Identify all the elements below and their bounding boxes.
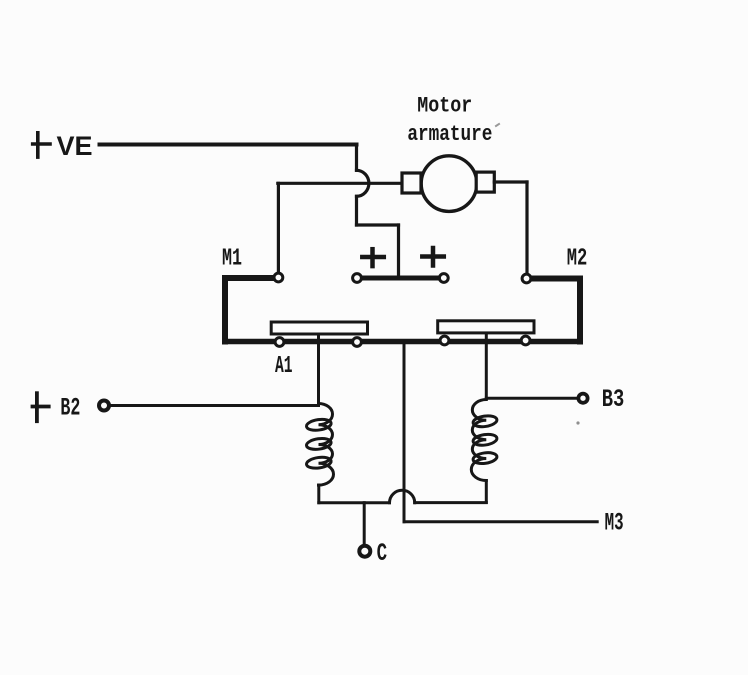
wire right bar tap down	[485, 333, 488, 398]
svg-text:B3: B3	[602, 385, 625, 414]
svg-text:Motor: Motor	[417, 93, 472, 118]
power terminal +VE cross symbol	[33, 133, 50, 157]
thick contact bus wire	[226, 339, 580, 345]
wire M3 vertical (center)	[403, 342, 406, 522]
wire B3 lead	[486, 397, 577, 400]
wire +VE vertical drop (upper part)	[355, 145, 358, 171]
contact bar left (bridge over A1 contacts)	[271, 322, 367, 334]
crossover hop of +VE wire over armature wire	[357, 170, 369, 196]
terminal bridge right (+)	[439, 274, 448, 283]
contact stud left-bar left	[275, 338, 284, 347]
wire bottom right segment	[415, 501, 487, 504]
motor brush right	[476, 172, 494, 192]
svg-text:B2: B2	[60, 394, 80, 423]
thick armature bridge bar between + terminals	[357, 276, 444, 281]
wire C stub	[363, 503, 366, 544]
wire +VE horizontal feed	[100, 143, 357, 147]
plus mark right of armature bridge	[422, 248, 444, 266]
wire M2 vertical drop	[525, 182, 528, 273]
wire right coil to bottom	[485, 481, 488, 503]
terminal C	[359, 546, 370, 557]
terminal M1	[274, 273, 283, 282]
contact stud right-bar right	[521, 336, 530, 345]
motor armature body	[421, 156, 477, 212]
coil left (winding)	[306, 404, 334, 486]
svg-text:M3: M3	[605, 509, 624, 538]
svg-text:armature: armature	[407, 122, 492, 147]
svg-text:C: C	[377, 539, 388, 568]
stray mark after armature	[496, 124, 499, 126]
wire M3 horizontal lead	[404, 520, 597, 523]
svg-text:M2: M2	[567, 246, 588, 273]
wire B2 to left coil	[111, 404, 319, 407]
plus mark left of armature bridge	[362, 249, 384, 266]
svg-text:A1: A1	[275, 353, 293, 380]
wire armature left lead	[278, 182, 402, 185]
svg-text:VE: VE	[57, 131, 93, 161]
wire +VE vertical drop (lower part)	[355, 196, 358, 225]
terminal B3	[578, 394, 587, 403]
stray speck below B3	[576, 421, 579, 424]
svg-text:M1: M1	[222, 246, 242, 273]
wire left coil to bottom	[317, 485, 320, 503]
thick wire hook M1 to contact bus	[225, 278, 273, 342]
wire +VE drop to armature bridge	[397, 225, 400, 277]
motor brush left	[402, 173, 421, 193]
terminal bridge left (+)	[353, 274, 362, 283]
terminal B2	[99, 401, 109, 411]
terminal M2	[522, 274, 531, 283]
wire bottom left segment	[319, 501, 390, 504]
wire left bar tap down	[317, 334, 320, 404]
wire M1 vertical from armature lead corner	[277, 183, 280, 271]
contact bar right	[438, 321, 534, 333]
thick wire hook M2 to contact bus	[532, 279, 580, 342]
power terminal +B2 cross symbol	[33, 393, 49, 421]
wire armature right lead	[494, 180, 527, 183]
wire +VE jog right	[357, 223, 399, 226]
crossover hop of bottom wire over M3 wire	[390, 490, 415, 502]
contact stud left-bar right	[353, 338, 362, 347]
contact stud right-bar left	[440, 336, 449, 345]
coil right (winding)	[471, 400, 497, 481]
